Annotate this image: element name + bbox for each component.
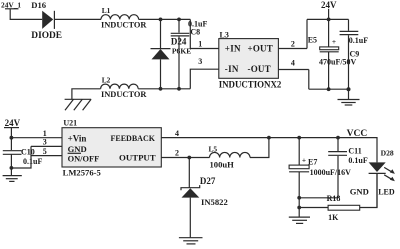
- wire 24V rail down: [10, 128, 14, 150]
- net label 24V_1: [1, 1, 21, 10]
- net label 24V (bottom left): [4, 118, 21, 128]
- inductor L2: [101, 75, 148, 99]
- svg-text:E5: E5: [308, 36, 317, 45]
- wire L5 to VCC rail: [250, 138, 269, 158]
- svg-text:470uF/50V: 470uF/50V: [319, 57, 357, 66]
- svg-text:4: 4: [291, 59, 295, 68]
- svg-text:IN5822: IN5822: [201, 197, 228, 207]
- wire pin 4 / VCC rail: [161, 129, 377, 162]
- svg-text:LED: LED: [378, 188, 395, 197]
- svg-text:D28: D28: [381, 148, 394, 157]
- wire pin 2: [278, 39, 307, 48]
- capacitor C9: [340, 19, 369, 99]
- wire pin 2 (output): [161, 149, 209, 160]
- svg-text:L3: L3: [220, 30, 229, 39]
- inductor L1: [101, 6, 147, 30]
- wire pin 4: [278, 59, 308, 70]
- svg-text:3: 3: [198, 57, 202, 66]
- svg-text:L1: L1: [102, 6, 111, 15]
- svg-text:+IN: +IN: [225, 43, 241, 53]
- svg-text:U21: U21: [63, 119, 77, 128]
- diode D16: [31, 0, 62, 41]
- capacitor C11: [328, 138, 368, 198]
- svg-text:2: 2: [291, 39, 295, 48]
- svg-text:C9: C9: [350, 49, 360, 58]
- wire pin 1 (bottom): [11, 129, 62, 138]
- TVS diode D24: [151, 19, 192, 88]
- svg-text:+: +: [302, 156, 306, 165]
- svg-text:D16: D16: [31, 0, 47, 10]
- capacitor E5: [308, 19, 357, 89]
- wire node B to pin 3: [190, 57, 219, 89]
- chassis ground: [65, 89, 101, 110]
- svg-text:L5: L5: [209, 145, 218, 154]
- svg-text:0.1uF: 0.1uF: [23, 157, 42, 166]
- svg-text:1K: 1K: [328, 213, 339, 222]
- svg-text:0.1uF: 0.1uF: [348, 156, 367, 165]
- ground (under D27): [179, 238, 203, 244]
- capacitor C8: [171, 19, 208, 88]
- capacitor E7: [289, 138, 351, 218]
- svg-text:-IN: -IN: [225, 64, 239, 74]
- ground (under C10): [3, 176, 22, 182]
- net label VCC: [347, 129, 368, 139]
- svg-text:C8: C8: [190, 28, 200, 37]
- svg-text:INDUCTOR: INDUCTOR: [101, 90, 147, 99]
- svg-text:100uH: 100uH: [210, 159, 235, 169]
- svg-text:+Vin: +Vin: [68, 134, 87, 144]
- svg-text:ON/OFF: ON/OFF: [68, 154, 100, 163]
- svg-text:E7: E7: [308, 158, 317, 167]
- svg-text:2: 2: [175, 149, 179, 158]
- svg-text:P6KE: P6KE: [172, 46, 191, 55]
- svg-text:INDUCTOR: INDUCTOR: [101, 21, 147, 30]
- wire GND (C11 bottom): [299, 187, 369, 198]
- wire pins 3/5 to ground rail: [11, 146, 31, 168]
- wire pin 3 (bottom): [31, 138, 62, 147]
- inductor L5: [209, 145, 250, 170]
- svg-text:GND: GND: [350, 187, 369, 197]
- IC U21: [62, 119, 161, 178]
- svg-text:R18: R18: [327, 194, 341, 203]
- schottky diode D27: [181, 158, 228, 238]
- svg-text:DIODE: DIODE: [31, 31, 62, 41]
- wire 24V_1 to D16: [10, 9, 42, 19]
- svg-text:1: 1: [198, 39, 202, 48]
- svg-text:D27: D27: [200, 176, 216, 186]
- svg-text:1000uF/16V: 1000uF/16V: [310, 168, 352, 177]
- wire L1 to node A corner: [139, 18, 191, 22]
- svg-text:INDUCTIONX2: INDUCTIONX2: [219, 80, 282, 90]
- svg-text:+OUT: +OUT: [248, 43, 273, 53]
- svg-text:4: 4: [175, 129, 179, 138]
- svg-text:L2: L2: [102, 75, 111, 84]
- svg-text:24V: 24V: [321, 0, 337, 10]
- wire D16 to L1: [54, 18, 101, 20]
- ground (top right): [338, 100, 360, 106]
- svg-text:VCC: VCC: [347, 129, 368, 139]
- wire output rails: [307, 18, 351, 92]
- svg-text:C10: C10: [21, 147, 35, 156]
- LED arrows: [384, 167, 395, 181]
- resistor R18: [299, 173, 377, 221]
- svg-text:3: 3: [43, 138, 47, 147]
- wire L2 to node B corner: [138, 87, 190, 91]
- capacitor C10: [3, 147, 43, 175]
- net label 24V (top right): [321, 0, 337, 19]
- ground (under E7): [289, 217, 310, 223]
- filter module L3: [219, 30, 282, 89]
- svg-text:5: 5: [43, 147, 47, 156]
- svg-text:0.1uF: 0.1uF: [349, 36, 368, 45]
- svg-text:GND: GND: [68, 144, 87, 154]
- svg-text:+: +: [332, 37, 336, 46]
- wire node A to pin 1: [190, 19, 219, 48]
- LED D28: [369, 148, 395, 207]
- svg-text:-OUT: -OUT: [248, 64, 271, 74]
- svg-text:FEEDBACK: FEEDBACK: [111, 134, 156, 143]
- svg-text:LM2576-5: LM2576-5: [63, 167, 101, 177]
- svg-text:OUTPUT: OUTPUT: [119, 152, 156, 162]
- svg-text:24V: 24V: [5, 118, 21, 128]
- svg-text:1: 1: [43, 129, 47, 138]
- svg-text:C11: C11: [348, 146, 361, 155]
- wire pin 5 (bottom): [31, 147, 62, 156]
